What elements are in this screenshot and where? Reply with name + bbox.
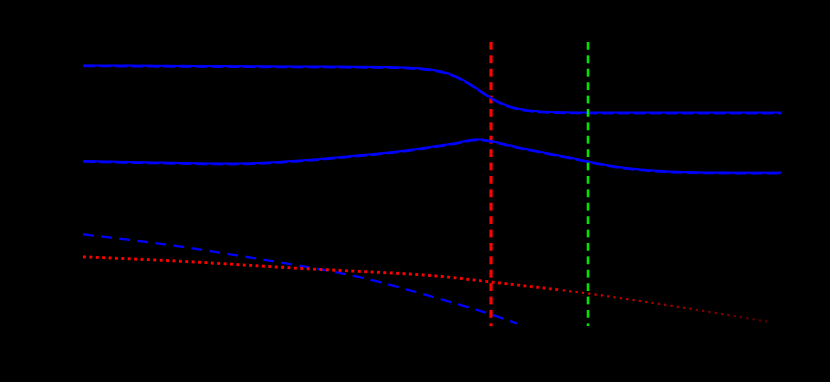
upper blue energy curve (dashed overlay) bbox=[83, 66, 781, 113]
upper blue energy curve (solid) bbox=[83, 65, 781, 112]
red dotted curve (fading tail) bbox=[563, 290, 770, 322]
red dashed vertical marker line bbox=[489, 42, 492, 326]
lower blue energy curve (dashed overlay) bbox=[83, 140, 781, 173]
lower blue energy curve (solid) bbox=[83, 139, 781, 172]
red dotted curve (bright section) bbox=[83, 257, 560, 290]
green dashed vertical marker line bbox=[587, 42, 590, 326]
blue dashed coupling curve bbox=[83, 234, 517, 323]
